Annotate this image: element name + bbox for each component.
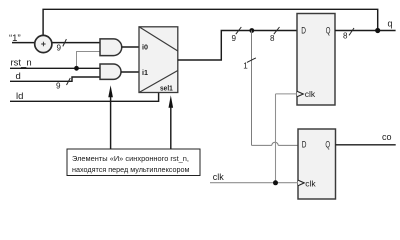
svg-text:9: 9 [56, 82, 61, 91]
node: q feedback junction [375, 28, 380, 33]
svg-text:D: D [302, 140, 307, 151]
and gate A2 [100, 64, 121, 79]
svg-text:clk: clk [213, 172, 224, 182]
arrow to AND gates [110, 95, 112, 149]
svg-text:Q: Q [326, 26, 331, 37]
wire: "1" input to adder [12, 42, 35, 44]
svg-text:D: D [301, 26, 306, 37]
node: rst_n junction [74, 66, 79, 71]
wire: clk riser to FF1 (gray) [276, 94, 298, 183]
node: branch junction [249, 28, 254, 33]
bus slash 8 [274, 27, 280, 34]
wire: adder output to AND1 [52, 42, 100, 44]
svg-text:находятся перед мультиплексоро: находятся перед мультиплексором [72, 165, 190, 174]
svg-text:co: co [382, 132, 392, 142]
svg-text:Элементы «И» синхронного rst_n: Элементы «И» синхронного rst_n, [72, 154, 189, 163]
bus slash 1 [247, 58, 256, 63]
svg-text:Q: Q [325, 140, 330, 151]
wire: branch down to FF2 D with hop [252, 31, 299, 146]
svg-text:clk: clk [305, 178, 316, 188]
wire: feedback from q to adder top [43, 9, 378, 35]
svg-text:9: 9 [232, 34, 237, 43]
multiplexer [139, 27, 178, 93]
wire: rst_n rail [10, 67, 100, 69]
svg-text:ld: ld [16, 91, 23, 102]
wire: AND1 output to mux i0 [122, 46, 139, 48]
bus slash 8 on q [349, 28, 354, 35]
svg-text:i0: i0 [142, 42, 148, 51]
wire: q output [335, 30, 396, 32]
flip-flop U2 [298, 129, 336, 199]
svg-text:clk: clk [305, 89, 316, 99]
bus slash 9 on adder output [63, 39, 67, 46]
clk triangle U2 [298, 180, 304, 186]
annotation box [67, 149, 200, 176]
wire: rst_n branch up to AND1 [77, 52, 101, 69]
wire: AND2 output to mux i1 [121, 71, 139, 73]
svg-text:i1: i1 [142, 68, 149, 77]
clk triangle U1 [297, 91, 303, 97]
wire: clk rail (gray) [210, 182, 298, 184]
flip-flop U1 [297, 14, 335, 106]
svg-text:d: d [16, 71, 21, 82]
svg-text:rst_n: rst_n [11, 58, 32, 69]
node: clk junction [273, 180, 278, 185]
svg-text:“1”: “1” [9, 33, 21, 44]
arrow to sel1 [170, 106, 172, 149]
wire: d rail [10, 77, 100, 81]
wire: ld rail to sel1 [10, 93, 159, 101]
svg-text:8: 8 [270, 34, 275, 43]
bus slash 9 [236, 27, 242, 34]
svg-text:9: 9 [57, 44, 62, 53]
bus slash 9 on d [67, 78, 71, 85]
wire: mux output to FF1 D [178, 31, 297, 61]
svg-text:sel1: sel1 [160, 84, 173, 93]
and gate A1 [100, 39, 122, 56]
svg-text:8: 8 [343, 32, 348, 41]
svg-text:q: q [388, 18, 393, 28]
adder circle [35, 35, 52, 52]
wire: co output [336, 144, 396, 146]
svg-text:1: 1 [243, 61, 248, 70]
